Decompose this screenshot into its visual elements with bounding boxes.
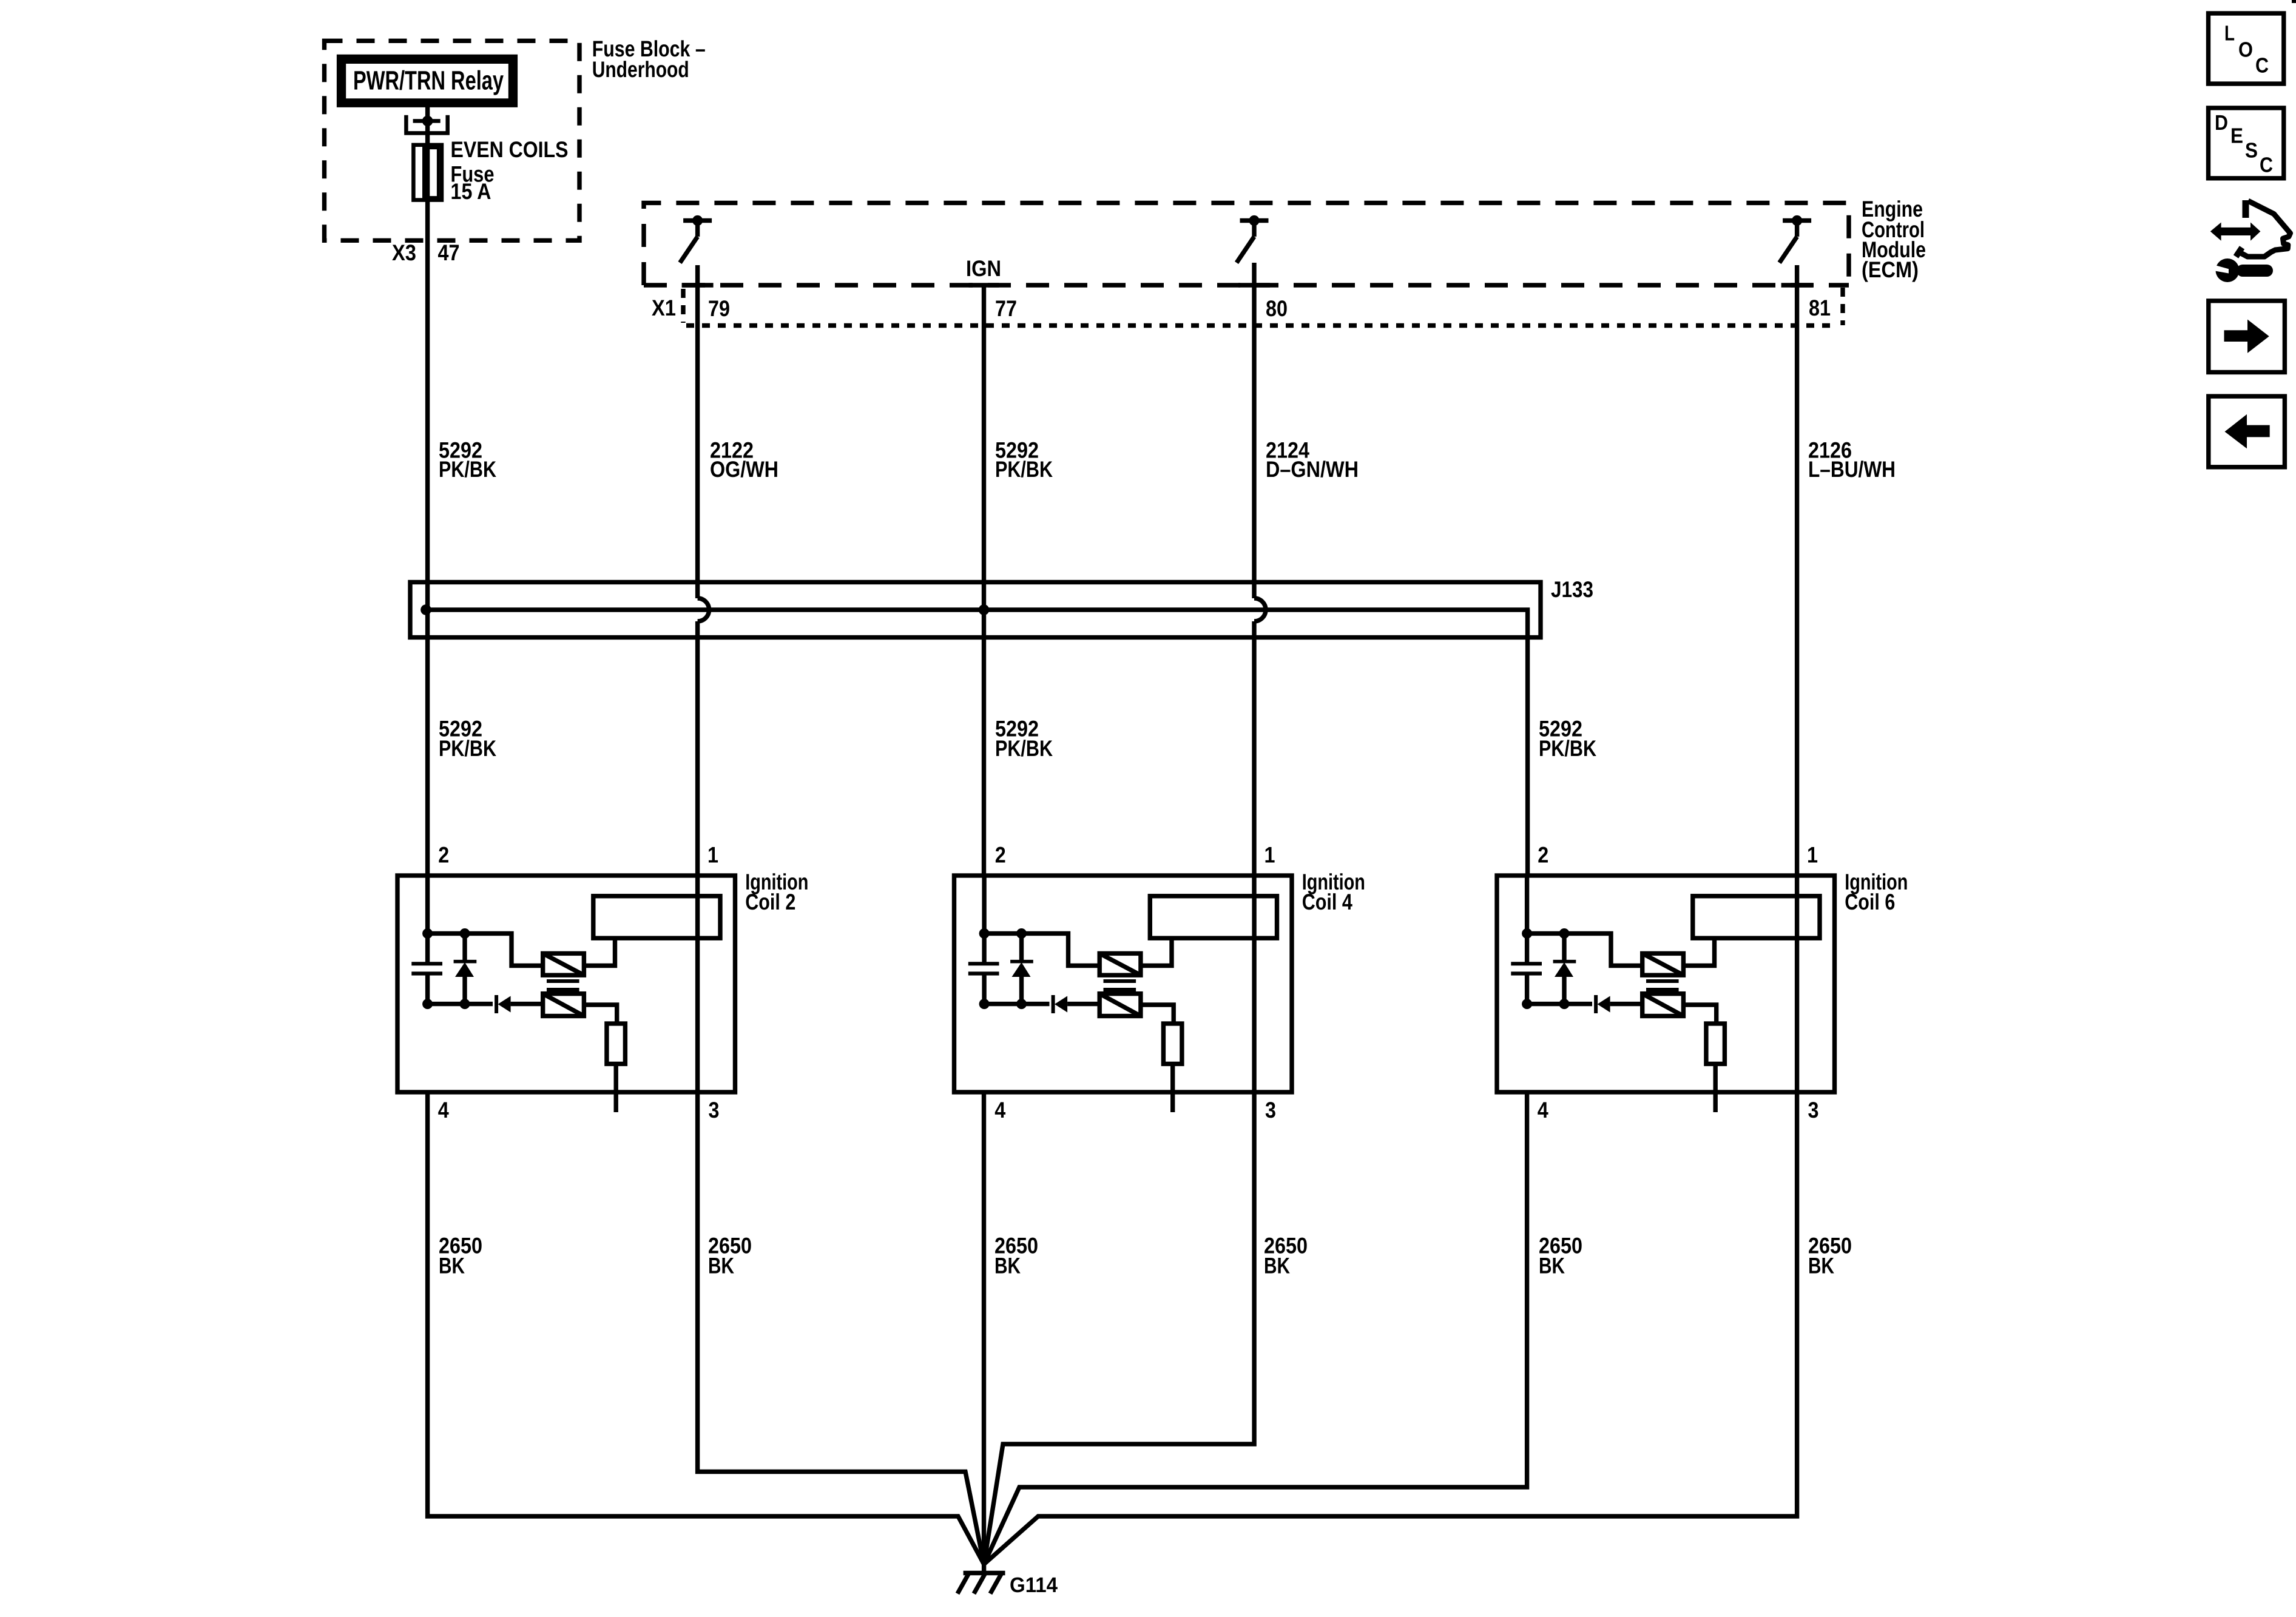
svg-text:47: 47 <box>438 240 460 265</box>
svg-text:J133: J133 <box>1551 577 1593 602</box>
coil 2 pin1/pin3 internal wire <box>695 896 700 1092</box>
svg-text:77: 77 <box>995 296 1017 321</box>
label pin 2 <box>438 842 449 867</box>
wire 2650 BK coil2 pin4 to ground <box>428 1092 984 1564</box>
ground G114 symbol <box>957 1564 1005 1594</box>
wire 2650 BK coil6 pin4 to ground <box>984 1092 1527 1564</box>
label X1 <box>652 295 676 320</box>
svg-text:BK: BK <box>439 1253 465 1278</box>
label pin 4 <box>438 1098 449 1122</box>
wire label 5292 PK/BK <box>439 717 496 761</box>
zener diode D2a <box>454 934 477 1004</box>
label Fuse Block - Underhood <box>592 36 706 82</box>
secondary winding coil 6 <box>1643 994 1684 1016</box>
svg-text:3: 3 <box>1808 1098 1819 1122</box>
wire 5292 PK/BK splice to coil6 pin2 <box>1525 637 1530 876</box>
label EVEN COILS Fuse 15 A <box>451 137 569 204</box>
junction dot <box>422 999 433 1009</box>
svg-text:BK: BK <box>1264 1253 1290 1278</box>
svg-text:PK/BK: PK/BK <box>1539 736 1596 761</box>
label Engine Control Module (ECM) <box>1862 197 1926 282</box>
svg-text:X1: X1 <box>652 295 676 320</box>
capacitor C2 <box>411 934 442 1004</box>
junction dot <box>460 999 470 1009</box>
junction dot fuse feed <box>420 604 431 615</box>
X1 strip right separator <box>1840 288 1845 325</box>
svg-text:BK: BK <box>1808 1253 1834 1278</box>
wire through fuse down to connector <box>425 147 430 610</box>
ECM driver switch pin 79 <box>680 215 712 263</box>
zener diode D6a <box>1553 934 1576 1004</box>
wire label 2122 OG/WH <box>710 437 778 481</box>
spark output stub <box>1713 1064 1717 1112</box>
svg-text:Coil 4: Coil 4 <box>1302 890 1352 914</box>
spark output stub <box>614 1064 618 1112</box>
splice block J133 box <box>410 582 1541 638</box>
svg-text:2: 2 <box>995 842 1006 867</box>
wire label 5292 PK/BK <box>439 437 496 481</box>
label pin 4 <box>994 1098 1005 1122</box>
svg-text:2: 2 <box>438 842 449 867</box>
primary to tower wire <box>584 938 615 965</box>
coil 2 internal node wire to primary <box>428 934 543 966</box>
fuse block - underhood dashed box <box>325 41 580 240</box>
resistor R4 <box>1163 1024 1182 1064</box>
label J133 <box>1551 577 1593 602</box>
wire 5292 PK/BK splice to coil4 pin2 <box>982 610 986 876</box>
svg-text:EVEN COILS: EVEN COILS <box>451 137 569 162</box>
svg-text:D: D <box>2215 111 2228 135</box>
wire label 2126 L–BU/WH <box>1808 437 1896 481</box>
label X3 connector <box>392 240 416 265</box>
wire label 5292 PK/BK <box>995 437 1053 481</box>
primary to tower wire <box>1141 938 1172 965</box>
svg-text:PWR/TRN Relay: PWR/TRN Relay <box>353 66 504 96</box>
zener diode D4a <box>1010 934 1033 1004</box>
label pin 3 <box>709 1098 720 1122</box>
junction dot <box>979 999 990 1009</box>
fuse EVEN COILS 15 A symbol <box>413 145 442 200</box>
lower node wire <box>1527 1002 1592 1006</box>
junction dot <box>1559 928 1570 939</box>
X1 strip left separator <box>681 289 685 323</box>
wire 2650 BK coil4 pin3 to ground <box>984 1092 1255 1564</box>
coil 6 pin1/pin3 internal wire <box>1795 896 1799 1092</box>
right arrow icon box <box>2209 301 2285 373</box>
label pin 2 <box>1538 842 1548 867</box>
left arrow icon box <box>2209 396 2285 467</box>
svg-text:79: 79 <box>708 296 730 321</box>
svg-text:4: 4 <box>994 1098 1005 1122</box>
svg-text:BK: BK <box>708 1253 734 1278</box>
svg-text:O: O <box>2238 38 2253 62</box>
diode D6b <box>1596 995 1643 1013</box>
svg-text:(ECM): (ECM) <box>1862 257 1919 282</box>
coil 6 pin2 internal wire <box>1525 876 1529 934</box>
svg-text:BK: BK <box>994 1253 1021 1278</box>
svg-text:3: 3 <box>1265 1098 1276 1122</box>
junction dot relay output <box>422 116 433 127</box>
label Ignition Coil 4 <box>1302 869 1365 914</box>
spark output stub <box>1170 1064 1175 1112</box>
label pin 1 <box>1807 842 1818 867</box>
primary winding coil 6 <box>1643 953 1684 975</box>
wire label 2650 BK <box>994 1234 1038 1278</box>
wire label 2650 BK <box>1539 1234 1582 1278</box>
secondary output wire <box>1683 1005 1716 1024</box>
LOC icon box <box>2209 13 2284 84</box>
svg-text:15 A: 15 A <box>451 179 491 204</box>
label pin 81 <box>1809 295 1831 320</box>
left arrow <box>2225 414 2270 448</box>
svg-text:IGN: IGN <box>966 256 1001 281</box>
wire label 2124 D–GN/WH <box>1266 437 1359 481</box>
ECM box bottom dashed line <box>644 283 1849 287</box>
lower node wire <box>428 1002 493 1006</box>
junction dot <box>460 928 470 939</box>
resistor R2 <box>607 1024 626 1064</box>
svg-text:1: 1 <box>707 842 718 867</box>
wire 2124 D-GN/WH pin80 to coil4 pin1 (hops splice) <box>1252 263 1256 896</box>
svg-text:S: S <box>2245 139 2258 163</box>
wire 2650 BK coil2 pin3 to ground <box>698 1092 984 1564</box>
wire relay output to fuse <box>425 107 430 147</box>
X1 connector strip dotted line <box>686 323 1837 328</box>
DESC letters <box>2215 111 2273 177</box>
svg-text:3: 3 <box>709 1098 720 1122</box>
svg-text:C: C <box>2260 154 2273 177</box>
svg-text:D–GN/WH: D–GN/WH <box>1266 457 1359 482</box>
wire label 2650 BK <box>1264 1234 1308 1278</box>
relay label PWR/TRN Relay <box>353 66 504 96</box>
svg-text:C: C <box>2255 54 2269 78</box>
splice J133 internal bus wire <box>426 610 1528 637</box>
service info icon: double arrow <box>2210 223 2261 241</box>
svg-text:4: 4 <box>438 1098 449 1122</box>
svg-text:PK/BK: PK/BK <box>995 457 1053 482</box>
ECM driver switch pin 81 <box>1780 215 1812 263</box>
right arrow <box>2224 320 2269 353</box>
coil tower rectangle <box>1693 896 1820 938</box>
coil 4 pin2 internal wire <box>982 876 986 934</box>
svg-text:L: L <box>2224 22 2235 46</box>
label Ignition Coil 2 <box>745 869 808 914</box>
primary winding coil 2 <box>543 953 584 975</box>
coil 6 internal node wire to primary <box>1527 934 1643 966</box>
primary to tower wire <box>1683 938 1714 965</box>
label pin 1 <box>1264 842 1275 867</box>
lower node wire <box>984 1002 1049 1006</box>
service info icon: hand cuff <box>2236 248 2242 257</box>
coil tower rectangle <box>1150 896 1277 938</box>
svg-text:BK: BK <box>1539 1253 1565 1278</box>
label Ignition Coil 6 <box>1845 869 1908 914</box>
pin crossing tick <box>1781 283 1813 287</box>
ignition coil 6 box <box>1497 876 1835 1092</box>
relay PWR/TRN Relay <box>337 55 518 107</box>
secondary output wire <box>584 1005 616 1024</box>
svg-text:Coil 2: Coil 2 <box>745 890 795 914</box>
coil 4 internal node wire to primary <box>984 934 1099 966</box>
wire 2650 BK coil6 pin3 to ground <box>984 1092 1797 1564</box>
page artifact dot <box>2292 0 2296 3</box>
wire 2126 L-BU/WH pin81 to coil6 pin1 <box>1795 265 1799 896</box>
secondary winding coil 2 <box>543 994 584 1016</box>
ignition coil 2 box <box>397 876 735 1092</box>
DESC icon box <box>2209 108 2284 178</box>
label IGN <box>966 256 1001 281</box>
wire 2650 BK coil4 pin4 to ground <box>982 1092 986 1564</box>
ignition coil 4 box <box>954 876 1292 1092</box>
svg-text:81: 81 <box>1809 295 1831 320</box>
junction dot <box>1559 999 1570 1009</box>
resistor R6 <box>1706 1024 1725 1064</box>
capacitor C6 <box>1511 934 1542 1004</box>
wire label 5292 PK/BK <box>995 717 1053 761</box>
wire label 5292 PK/BK <box>1539 717 1596 761</box>
label pin 77 <box>995 296 1017 321</box>
wire 2122 OG/WH pin79 to coil2 pin1 (hops splice) <box>695 265 700 896</box>
wire 5292 PK/BK splice to coil2 pin2 <box>425 610 430 876</box>
label pin 4 <box>1538 1098 1548 1122</box>
secondary output wire <box>1141 1005 1173 1024</box>
terminal bar through dot <box>413 119 441 123</box>
svg-text:E: E <box>2230 124 2243 147</box>
wire 5292 PK/BK pin77 to splice J133 <box>982 285 986 610</box>
svg-text:X3: X3 <box>392 240 416 265</box>
label pin 79 <box>708 296 730 321</box>
wire label 2650 BK <box>708 1234 752 1278</box>
label pin 3 <box>1808 1098 1819 1122</box>
junction dot <box>1522 928 1532 939</box>
svg-text:G114: G114 <box>1010 1573 1058 1597</box>
transformer core <box>547 981 579 990</box>
wire label 2650 BK <box>439 1234 482 1278</box>
junction dot <box>1016 928 1027 939</box>
junction dot <box>1522 999 1532 1009</box>
svg-text:PK/BK: PK/BK <box>439 736 496 761</box>
coil 2 pin2 internal wire <box>425 876 430 934</box>
label pin 2 <box>995 842 1006 867</box>
junction dot <box>979 928 990 939</box>
junction dot pin77 feed <box>979 604 990 615</box>
svg-text:2: 2 <box>1538 842 1548 867</box>
svg-text:1: 1 <box>1264 842 1275 867</box>
svg-text:Underhood: Underhood <box>592 57 689 82</box>
junction dot <box>422 928 433 939</box>
transformer core <box>1104 981 1136 990</box>
svg-text:PK/BK: PK/BK <box>995 736 1053 761</box>
svg-text:L–BU/WH: L–BU/WH <box>1808 457 1896 482</box>
label pin 3 <box>1265 1098 1276 1122</box>
pin crossing tick <box>1238 283 1270 287</box>
wire label 2650 BK <box>1808 1234 1852 1278</box>
coil tower rectangle <box>593 896 720 938</box>
coil 4 pin1/pin3 internal wire <box>1252 896 1256 1092</box>
service info icon: hand outline <box>2243 200 2249 218</box>
label pin 80 <box>1266 296 1288 321</box>
diode D4b <box>1053 995 1100 1013</box>
primary winding coil 4 <box>1099 953 1141 975</box>
IGN feed T-bar pin 77 <box>969 283 999 287</box>
ECM dashed box outline <box>644 203 1849 285</box>
LOC letters <box>2224 22 2269 78</box>
svg-text:1: 1 <box>1807 842 1818 867</box>
junction dot <box>1016 999 1027 1009</box>
service info icon: wrench <box>2212 258 2273 282</box>
label G114 <box>1010 1573 1058 1597</box>
capacitor C4 <box>968 934 999 1004</box>
secondary winding coil 4 <box>1099 994 1141 1016</box>
relay terminal clip bracket <box>404 115 450 133</box>
svg-text:OG/WH: OG/WH <box>710 457 778 482</box>
label pin 47 <box>438 240 460 265</box>
diode D2b <box>496 995 543 1013</box>
ECM driver switch pin 80 <box>1237 215 1269 263</box>
pin crossing tick <box>682 283 714 287</box>
label pin 1 <box>707 842 718 867</box>
svg-text:4: 4 <box>1538 1098 1548 1122</box>
transformer core <box>1646 981 1679 990</box>
svg-text:PK/BK: PK/BK <box>439 457 496 482</box>
svg-text:Coil 6: Coil 6 <box>1845 890 1895 914</box>
svg-text:80: 80 <box>1266 296 1288 321</box>
